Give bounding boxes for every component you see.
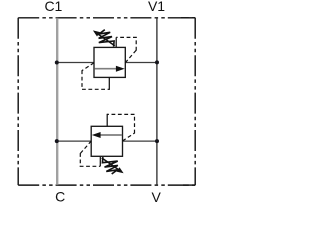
svg-text:C1: C1 <box>44 0 62 14</box>
pilot drain dashed loop (bottom-left) <box>82 63 94 71</box>
node C1-C line (left vertical wire) <box>56 18 58 185</box>
enclosure border left <box>17 18 19 185</box>
wire top-left <box>57 62 94 64</box>
adjustment arrowhead <box>93 30 100 36</box>
drain pin to valve bottom <box>108 77 110 90</box>
svg-text:C: C <box>55 189 65 205</box>
adjustment arrow shaft <box>97 34 115 46</box>
enclosure border top (dash-dot-dot) <box>18 17 195 19</box>
enclosure border bottom <box>18 184 195 186</box>
junction dot bottom-right <box>155 139 159 143</box>
counterbalance valve CB2 (bottom, rotated copy) <box>80 114 135 174</box>
node V1-V line (right vertical wire) <box>156 18 158 185</box>
wire top-right <box>125 62 157 64</box>
internal flow arrowhead <box>116 66 125 72</box>
enclosure border right <box>194 18 196 185</box>
junction dot bottom-left <box>55 139 59 143</box>
internal flow line <box>94 68 116 70</box>
svg-text:V: V <box>152 189 162 205</box>
wire bottom-left <box>57 140 91 142</box>
svg-text:V1: V1 <box>148 0 165 14</box>
counterbalance valve CB1 (top) <box>82 30 137 90</box>
junction dot top-left <box>55 61 59 65</box>
wire bottom-right <box>123 140 157 142</box>
adjustable spring <box>99 30 115 47</box>
valve body square <box>94 47 125 77</box>
junction dot top-right <box>155 60 159 64</box>
border corner patch top-right <box>181 17 195 19</box>
border corner patch bottom-right <box>183 184 195 186</box>
spring-cap pin <box>115 37 117 47</box>
pilot line dashed (right, over top) <box>125 50 136 63</box>
